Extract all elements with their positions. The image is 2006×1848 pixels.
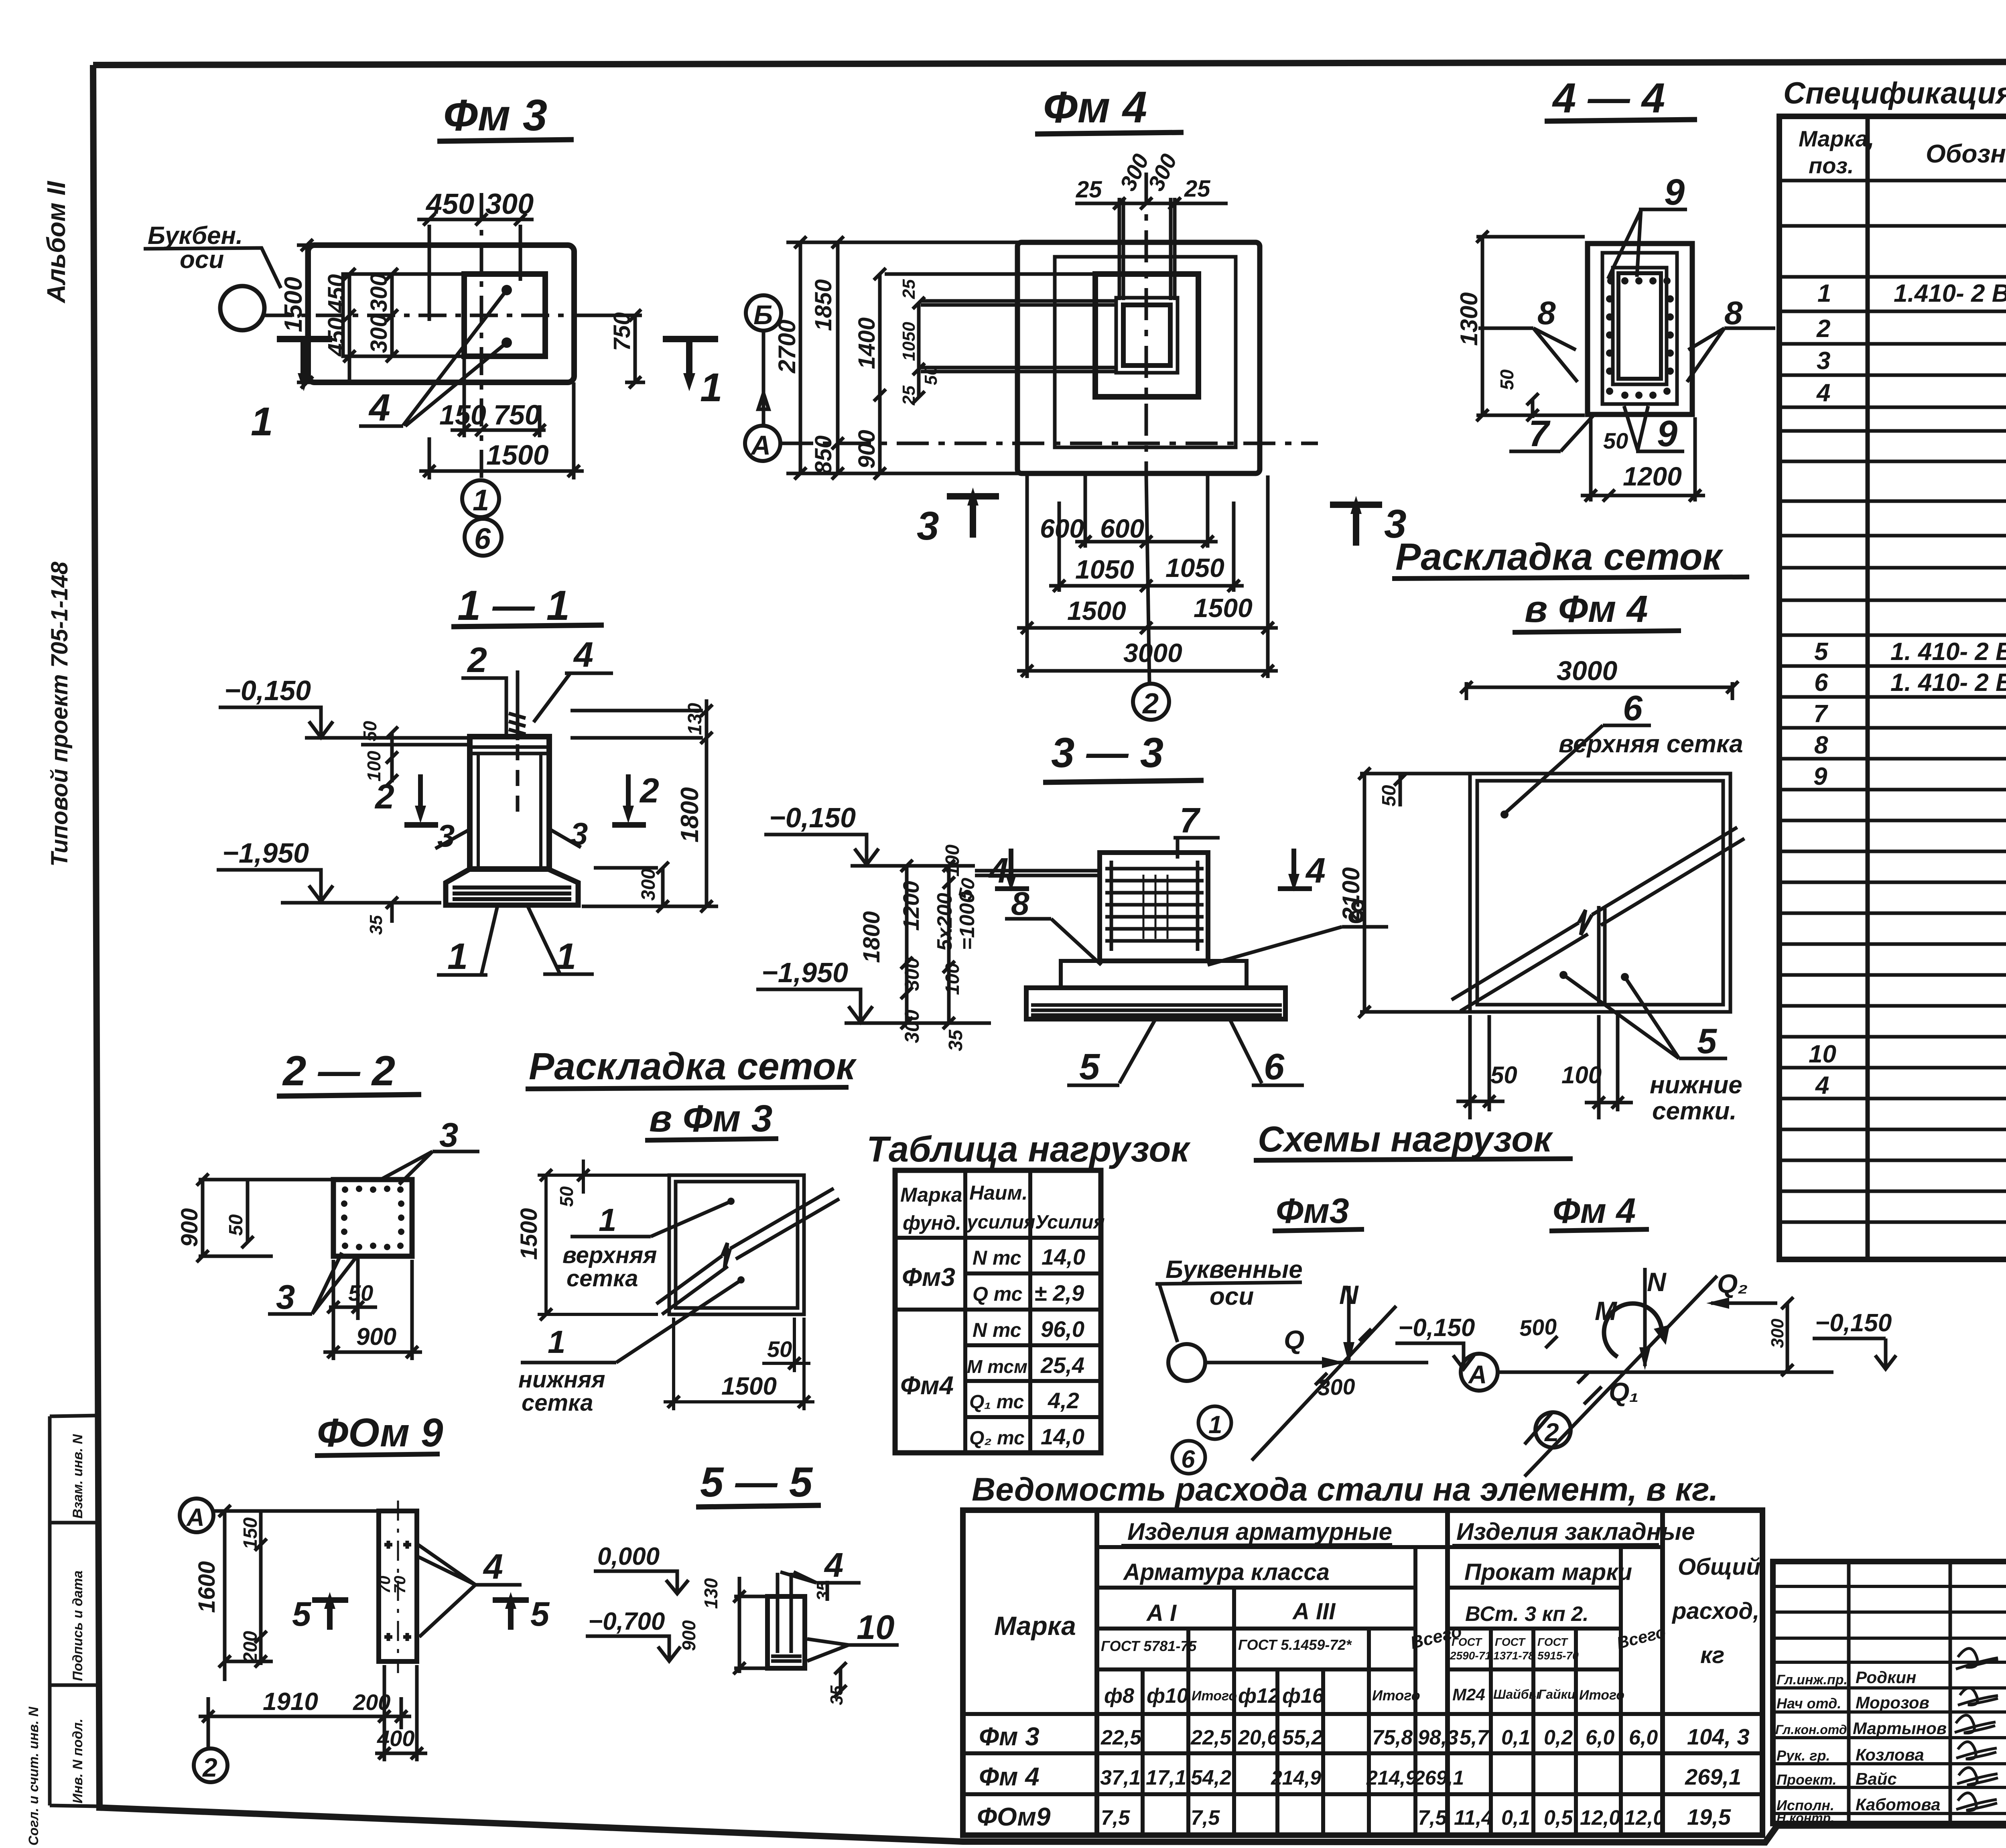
section mark 1 left	[251, 339, 332, 444]
svg-text:96,0: 96,0	[1041, 1316, 1084, 1342]
svg-text:2: 2	[467, 640, 487, 680]
anchor plate outer Фм4	[1116, 298, 1178, 373]
dimension chain 1850 850 (Фм4)	[810, 236, 844, 479]
right dimension 750	[574, 309, 645, 388]
svg-text:50: 50	[225, 1214, 247, 1236]
title Схемы нагрузок	[1254, 1119, 1573, 1160]
svg-text:35: 35	[366, 915, 386, 935]
steel table row Фм3	[979, 1722, 1750, 1751]
mesh square Фм3 (double border)	[669, 1175, 804, 1314]
svg-text:Козлова: Козлова	[1856, 1745, 1924, 1764]
svg-text:Раскладка сеток: Раскладка сеток	[529, 1045, 857, 1088]
svg-text:Подпись и дата: Подпись и дата	[70, 1570, 85, 1681]
spec row 5	[1814, 635, 2006, 669]
signature names	[1775, 1668, 1947, 1825]
section mark 3 right	[1330, 496, 1407, 546]
svg-text:5х200: 5х200	[933, 893, 956, 951]
bottom dimension 1500 1500 (Фм4)	[1017, 475, 1278, 678]
svg-text:6: 6	[1814, 669, 1828, 697]
svg-text:50: 50	[359, 721, 380, 741]
scheme Фм4: axis bubble 2	[1525, 1411, 1571, 1448]
svg-text:М тсм: М тсм	[967, 1356, 1027, 1377]
right small dims 50 100 (1-1)	[359, 721, 398, 786]
title section 4-4	[1545, 75, 1697, 122]
pedestal outline section 4-4	[1588, 244, 1692, 414]
svg-text:25: 25	[1076, 177, 1102, 203]
svg-text:900: 900	[678, 1620, 699, 1651]
scheme Фм4: force Q1 label	[1584, 1377, 1639, 1407]
svg-text:1: 1	[700, 365, 723, 410]
leader to label 4	[359, 290, 507, 426]
footing step (3-3)	[1061, 961, 1247, 988]
spec row 1	[1817, 274, 2006, 313]
svg-text:14,0: 14,0	[1042, 1244, 1085, 1269]
svg-text:Гл.инж.пр.: Гл.инж.пр.	[1777, 1672, 1848, 1688]
svg-text:М24: М24	[1452, 1685, 1485, 1704]
svg-text:Букбен.: Букбен.	[148, 222, 243, 250]
svg-text:10: 10	[1809, 1040, 1836, 1068]
svg-text:1050: 1050	[1075, 554, 1134, 584]
svg-text:5915-70: 5915-70	[1537, 1649, 1579, 1662]
spec row 3	[1817, 347, 2006, 375]
svg-text:−0,700: −0,700	[588, 1608, 665, 1635]
svg-text:300: 300	[901, 957, 923, 991]
axis bubble А (ФОм9)	[180, 1499, 213, 1532]
svg-text:Фм 4: Фм 4	[1043, 83, 1147, 132]
svg-text:4,2: 4,2	[1048, 1388, 1079, 1413]
svg-text:Фм4: Фм4	[900, 1371, 954, 1400]
svg-text:20,6: 20,6	[1238, 1726, 1279, 1749]
svg-text:7,5: 7,5	[1418, 1806, 1447, 1830]
footing outline Фм4 plan	[1017, 242, 1260, 473]
svg-text:200: 200	[353, 1690, 390, 1715]
svg-text:Итого: Итого	[1579, 1688, 1624, 1703]
svg-text:7: 7	[1529, 413, 1551, 454]
svg-text:500: 500	[1519, 1314, 1557, 1341]
svg-text:100: 100	[363, 751, 384, 782]
svg-text:Фм 4: Фм 4	[1553, 1191, 1636, 1231]
svg-text:Родкин: Родкин	[1856, 1668, 1916, 1687]
scheme Фм4: dim 50 right	[1768, 1297, 1793, 1376]
svg-text:9: 9	[1664, 172, 1685, 213]
margin stamp strip	[50, 1415, 98, 1806]
svg-text:25: 25	[899, 386, 919, 406]
subtitle Фм4	[1549, 1191, 1649, 1231]
svg-text:ГОСТ 5781-75: ГОСТ 5781-75	[1101, 1638, 1197, 1654]
column section 2-2	[333, 1180, 412, 1256]
axis centerline vertical Фм3	[480, 193, 483, 483]
spec row 6	[1814, 669, 2006, 697]
svg-text:4: 4	[1816, 379, 1830, 407]
svg-text:1500: 1500	[280, 277, 307, 332]
svg-text:Изделия закладные: Изделия закладные	[1456, 1518, 1695, 1545]
section mark 4 left (3-3)	[988, 849, 1029, 892]
axis bubble 2 (ФОм9)	[194, 1748, 227, 1782]
svg-text:2: 2	[1544, 1418, 1559, 1447]
svg-text:6,0: 6,0	[1629, 1726, 1658, 1749]
svg-text:верхняя сетка: верхняя сетка	[1559, 730, 1743, 758]
svg-text:Морозов: Морозов	[1856, 1693, 1929, 1712]
scheme Фм3: axis bubble 6	[1172, 1441, 1205, 1474]
svg-text:35: 35	[813, 1581, 833, 1601]
svg-text:ФОм9: ФОм9	[977, 1802, 1051, 1831]
svg-text:6: 6	[1181, 1446, 1195, 1473]
svg-text:Таблица нагрузок: Таблица нагрузок	[867, 1129, 1191, 1170]
svg-text:0,2: 0,2	[1544, 1726, 1573, 1749]
label 8 right (4-4)	[1687, 295, 1775, 382]
svg-text:1.410- 2 Вып. 1: 1.410- 2 Вып. 1	[1894, 280, 2006, 307]
pedestal with rebar cage (3-3)	[1100, 853, 1208, 961]
svg-text:Раскладка сеток: Раскладка сеток	[1395, 536, 1724, 578]
level 0,000 (5-5)	[594, 1543, 688, 1594]
section mark 5 left (ФОм9)	[292, 1592, 348, 1633]
svg-text:Фм 3: Фм 3	[979, 1722, 1040, 1751]
svg-text:150: 150	[240, 1517, 261, 1549]
svg-text:Проект.: Проект.	[1777, 1771, 1837, 1788]
svg-text:1500: 1500	[516, 1208, 542, 1260]
svg-text:300: 300	[1317, 1374, 1356, 1400]
svg-text:7,5: 7,5	[1101, 1806, 1130, 1830]
svg-text:Марка,: Марка,	[1799, 126, 1874, 151]
svg-text:Фм 4: Фм 4	[979, 1762, 1040, 1791]
svg-text:19,5: 19,5	[1687, 1804, 1731, 1830]
svg-text:Нач отд.: Нач отд.	[1777, 1695, 1841, 1712]
bottom dim 1500 50 (Фм3 раскладка)	[664, 1318, 814, 1410]
mesh strips horizontal Фм4	[921, 301, 1117, 372]
dimension chain 450 450	[323, 268, 355, 382]
footing slab (3-3)	[1026, 988, 1285, 1019]
svg-text:4: 4	[988, 851, 1009, 890]
svg-text:−0,150: −0,150	[1398, 1314, 1475, 1342]
svg-text:Обозначение: Обозначение	[1926, 139, 2006, 168]
svg-text:9: 9	[1657, 413, 1677, 454]
svg-text:1600: 1600	[194, 1561, 220, 1613]
svg-text:8: 8	[1814, 731, 1828, 759]
left dimension 1500 vertical	[280, 239, 317, 388]
svg-text:Марка: Марка	[994, 1611, 1076, 1641]
axis circle Фм3	[220, 286, 264, 330]
svg-text:300: 300	[1768, 1318, 1787, 1348]
anchor plate inner Фм4	[1123, 305, 1170, 366]
svg-text:2700: 2700	[774, 320, 800, 374]
svg-text:N тс: N тс	[973, 1319, 1021, 1341]
svg-text:750: 750	[609, 312, 635, 351]
svg-text:22,5: 22,5	[1100, 1726, 1142, 1749]
pedestal rectangle Фм4 plan	[1095, 274, 1198, 397]
svg-text:100: 100	[942, 845, 963, 877]
steel table headers	[994, 1518, 1760, 1708]
svg-text:7: 7	[1813, 700, 1828, 728]
svg-text:50: 50	[556, 1186, 577, 1207]
svg-text:3 — 3: 3 — 3	[1051, 729, 1163, 776]
svg-text:1200: 1200	[1623, 461, 1682, 491]
title Фм 3	[437, 91, 574, 141]
section mark 2 left	[374, 774, 438, 825]
svg-text:55,2: 55,2	[1282, 1726, 1323, 1749]
rebar dots 2-2	[341, 1186, 404, 1250]
svg-text:ГОСТ: ГОСТ	[1495, 1636, 1526, 1648]
svg-text:−1,950: −1,950	[222, 837, 309, 869]
label 3 left (1-1)	[435, 818, 471, 853]
svg-text:1500: 1500	[486, 439, 549, 471]
svg-text:А: А	[750, 430, 771, 461]
scheme Фм3: dim 300	[1315, 1329, 1371, 1400]
svg-text:214,9: 214,9	[1271, 1767, 1321, 1789]
svg-text:сетки.: сетки.	[1652, 1097, 1737, 1125]
anchor bolts vertical lines Фм4	[1119, 198, 1175, 300]
svg-text:300: 300	[901, 1009, 923, 1043]
specification header texts	[1799, 126, 2006, 181]
svg-text:Итого: Итого	[1372, 1687, 1420, 1704]
svg-text:450: 450	[323, 274, 349, 313]
load table grid	[895, 1170, 1101, 1453]
svg-text:0,5: 0,5	[1544, 1806, 1573, 1830]
svg-text:850: 850	[810, 435, 837, 474]
svg-text:Рук. гр.: Рук. гр.	[1777, 1747, 1830, 1764]
label 9 top (4-4)	[1608, 172, 1687, 279]
svg-text:600: 600	[1100, 514, 1144, 543]
scheme Фм4: level -0,150 left	[1395, 1314, 1475, 1369]
svg-text:Марка: Марка	[900, 1184, 962, 1206]
svg-text:300: 300	[638, 869, 659, 901]
level mark -1,950 (1-1)	[217, 837, 441, 903]
label 8 left (3-3)	[1005, 885, 1101, 965]
svg-text:=1000: =1000	[956, 892, 979, 950]
label 5 нижние сетки	[1559, 971, 1742, 1125]
svg-text:1. 410- 2 Вып. 1: 1. 410- 2 Вып. 1	[1890, 669, 2006, 697]
svg-text:Мартынов: Мартынов	[1853, 1719, 1947, 1738]
svg-text:Фм3: Фм3	[1276, 1191, 1349, 1231]
scheme Фм4: force Q2 arrow	[1706, 1269, 1777, 1309]
label 7 (4-4)	[1509, 413, 1594, 454]
svg-text:70: 70	[391, 1576, 409, 1594]
svg-text:54,2: 54,2	[1191, 1766, 1231, 1789]
scheme Фм4: rail slant line	[1525, 1276, 1717, 1476]
wall element ФОм9 plan	[379, 1501, 417, 1673]
svg-text:6: 6	[1264, 1046, 1285, 1087]
title section 5-5	[696, 1459, 821, 1507]
spec row 2	[1816, 315, 2006, 343]
bottom dimension 50 1200 (4-4)	[1581, 417, 1705, 502]
top dimension 25 300 300 25 (Фм4)	[1075, 150, 1228, 209]
bottom dimensions 1910 200 400 (ФОм9)	[199, 1665, 427, 1761]
label 3 top (2-2)	[379, 1116, 479, 1184]
svg-text:12,0: 12,0	[1624, 1806, 1665, 1830]
svg-text:0,000: 0,000	[597, 1543, 660, 1570]
svg-text:Итого: Итого	[1192, 1688, 1237, 1704]
svg-text:1 — 1: 1 — 1	[457, 582, 570, 629]
svg-text:ГОСТ: ГОСТ	[1452, 1636, 1483, 1648]
svg-text:450: 450	[425, 188, 474, 220]
svg-text:нижняя: нижняя	[518, 1367, 605, 1393]
svg-text:2: 2	[1816, 315, 1830, 343]
svg-text:нижние: нижние	[1650, 1071, 1742, 1099]
axis centerline horizontal Фм3	[264, 314, 638, 317]
svg-text:1500: 1500	[1067, 596, 1126, 625]
scheme Фм4: force N arrow	[1639, 1267, 1667, 1370]
svg-text:8: 8	[1537, 295, 1556, 331]
svg-text:А III: А III	[1292, 1598, 1336, 1625]
svg-text:1: 1	[1817, 280, 1831, 307]
svg-text:8: 8	[1011, 885, 1029, 922]
dims 50 1500 left (Фм3 раскладка)	[516, 1160, 669, 1320]
svg-text:50: 50	[348, 1280, 373, 1306]
svg-text:Взам. инв. N: Взам. инв. N	[70, 1434, 85, 1519]
svg-text:4 — 4: 4 — 4	[1552, 75, 1665, 122]
bottom mesh lines (1-1)	[453, 887, 571, 899]
svg-text:5: 5	[1814, 638, 1829, 666]
svg-text:−0,150: −0,150	[1815, 1309, 1892, 1337]
svg-text:оси: оси	[1210, 1283, 1254, 1310]
svg-text:ВСт. 3 кп 2.: ВСт. 3 кп 2.	[1465, 1602, 1589, 1626]
svg-text:3: 3	[917, 504, 939, 548]
svg-text:50: 50	[767, 1336, 792, 1362]
svg-text:2590-71: 2590-71	[1450, 1649, 1491, 1662]
svg-text:2: 2	[202, 1753, 217, 1782]
svg-text:поз.: поз.	[1809, 153, 1854, 178]
anchor bolt with thread (1-1)	[509, 670, 526, 818]
labels 1 bottom (1-1)	[437, 906, 594, 977]
svg-text:5: 5	[1079, 1046, 1100, 1087]
svg-text:9: 9	[1813, 763, 1827, 790]
svg-text:3000: 3000	[1557, 656, 1617, 686]
svg-text:1050: 1050	[1165, 553, 1224, 583]
footing outline Фм3 plan	[308, 245, 574, 382]
footing slab section 1-1	[446, 869, 578, 905]
scheme Фм4: axis line	[1498, 1371, 1833, 1374]
title Фм 4	[1035, 83, 1184, 134]
svg-text:5: 5	[530, 1595, 550, 1633]
top dimension 450 300	[417, 188, 534, 321]
svg-text:1200: 1200	[898, 881, 924, 931]
axis bubble 1	[462, 480, 499, 520]
svg-text:6: 6	[474, 522, 491, 555]
svg-text:Инв. N подл.: Инв. N подл.	[70, 1718, 85, 1803]
axis bubble А	[745, 426, 780, 461]
scheme Фм4: dim 500	[1519, 1314, 1590, 1383]
svg-text:± 2,9: ± 2,9	[1034, 1280, 1084, 1306]
svg-text:Буквенные: Буквенные	[1165, 1256, 1303, 1283]
svg-text:104, 3: 104, 3	[1687, 1724, 1750, 1749]
scheme Фм4: level -0,150 right	[1813, 1309, 1896, 1369]
mesh joint double line	[1599, 906, 1605, 1005]
svg-text:2 — 2: 2 — 2	[282, 1048, 395, 1095]
label 7 with leader (3-3)	[1174, 800, 1220, 859]
svg-text:1: 1	[1208, 1411, 1222, 1439]
svg-text:1800: 1800	[859, 911, 885, 963]
level mark -0,150 (1-1)	[219, 675, 467, 745]
subtitle Фм3	[1273, 1191, 1364, 1231]
svg-text:5: 5	[1697, 1021, 1717, 1061]
scheme Фм3: force N arrow	[1339, 1280, 1359, 1364]
load table header texts	[900, 1182, 1105, 1234]
svg-text:1: 1	[548, 1324, 566, 1360]
label 2 with leader (section 1-1 top)	[461, 640, 506, 734]
svg-text:Альбом II: Альбом II	[42, 181, 71, 304]
svg-text:98,3: 98,3	[1418, 1726, 1458, 1749]
title Раскладка сеток	[1392, 536, 1749, 579]
left dimension 50 2100 (раскладка Фм4)	[1338, 768, 1468, 1018]
svg-text:4: 4	[573, 635, 593, 674]
svg-text:1: 1	[599, 1202, 617, 1238]
svg-text:Изделия арматурные: Изделия арматурные	[1127, 1518, 1392, 1545]
svg-text:600: 600	[1040, 514, 1084, 543]
svg-text:75,8: 75,8	[1372, 1726, 1413, 1749]
svg-text:сетка: сетка	[522, 1390, 593, 1416]
dimension chain 300 300	[366, 268, 398, 362]
left dimension 900 50 (2-2)	[177, 1174, 331, 1262]
svg-text:1400: 1400	[854, 317, 880, 369]
svg-text:Q₂ тс: Q₂ тс	[969, 1428, 1025, 1449]
left dimension chains (3-3)	[859, 845, 980, 1051]
label 6 верхняя сетка	[1500, 688, 1743, 818]
bottom dimension 3000 (Фм4)	[1017, 638, 1278, 677]
label 1 нижняя сетка (Фм3 раскладка)	[518, 1276, 745, 1416]
svg-text:50: 50	[921, 366, 941, 385]
bottom dimensions 50 100 (раскладка Фм4)	[1456, 1015, 1633, 1119]
left dimension 2700 (Фм4)	[774, 236, 1021, 479]
title section 1-1	[451, 582, 604, 629]
mesh zone rectangle Фм3 plan	[343, 274, 464, 356]
svg-text:900: 900	[854, 430, 880, 469]
svg-text:2: 2	[1142, 688, 1159, 720]
svg-text:50: 50	[1496, 369, 1517, 390]
svg-text:1850: 1850	[810, 279, 837, 331]
level -0,700 (5-5)	[586, 1608, 680, 1661]
svg-text:−0,150: −0,150	[769, 802, 856, 833]
label 4 (5-5)	[780, 1546, 861, 1584]
left bottom dim 35 (1-1)	[366, 897, 398, 935]
svg-text:5 — 5: 5 — 5	[700, 1459, 813, 1506]
wall section 5-5	[767, 1573, 805, 1668]
spec row 4	[1816, 379, 2006, 407]
svg-text:1800: 1800	[676, 787, 704, 843]
svg-text:Гл.кон.отд: Гл.кон.отд	[1775, 1722, 1847, 1737]
svg-text:4: 4	[483, 1547, 503, 1586]
diagonal break band (Фм3 раскладка)	[656, 1188, 839, 1314]
small dims 25 50 (Фм4 plate)	[899, 279, 941, 406]
svg-text:Шайбы: Шайбы	[1493, 1687, 1540, 1702]
svg-text:200: 200	[240, 1631, 261, 1663]
svg-text:ФОм 9: ФОм 9	[317, 1410, 443, 1455]
svg-text:5,7: 5,7	[1460, 1726, 1489, 1749]
svg-text:12,0: 12,0	[1580, 1806, 1620, 1830]
svg-text:25,4: 25,4	[1040, 1352, 1084, 1378]
svg-text:−1,950: −1,950	[761, 957, 848, 988]
svg-text:−0,150: −0,150	[224, 675, 311, 706]
svg-text:2100: 2100	[1338, 867, 1364, 921]
svg-text:Б: Б	[753, 300, 773, 330]
diagonal break band	[1452, 827, 1744, 1011]
dimensions 150 1600 200 (ФОм9)	[194, 1505, 409, 1681]
svg-text:7,5: 7,5	[1191, 1806, 1220, 1830]
axis bubble Б	[746, 295, 781, 426]
anchor bolt dots Фм3	[501, 285, 512, 295]
svg-text:ГОСТ 5.1459-72*: ГОСТ 5.1459-72*	[1238, 1637, 1352, 1653]
right dimension 1800 (1-1)	[571, 699, 718, 912]
svg-text:25: 25	[1184, 176, 1210, 202]
svg-text:1. 410- 2 Вып. 1: 1. 410- 2 Вып. 1	[1890, 638, 2006, 666]
svg-text:1500: 1500	[721, 1373, 777, 1400]
svg-text:1300: 1300	[1456, 292, 1482, 346]
axis bubble 6	[465, 519, 501, 556]
svg-text:Согл. и счит. инв. N: Согл. и счит. инв. N	[26, 1706, 41, 1846]
svg-text:7: 7	[1180, 800, 1201, 840]
svg-text:Q₁: Q₁	[1609, 1377, 1639, 1407]
svg-text:2: 2	[639, 772, 659, 810]
bottom dimension 150 750	[439, 356, 546, 437]
svg-text:3: 3	[439, 1116, 458, 1154]
